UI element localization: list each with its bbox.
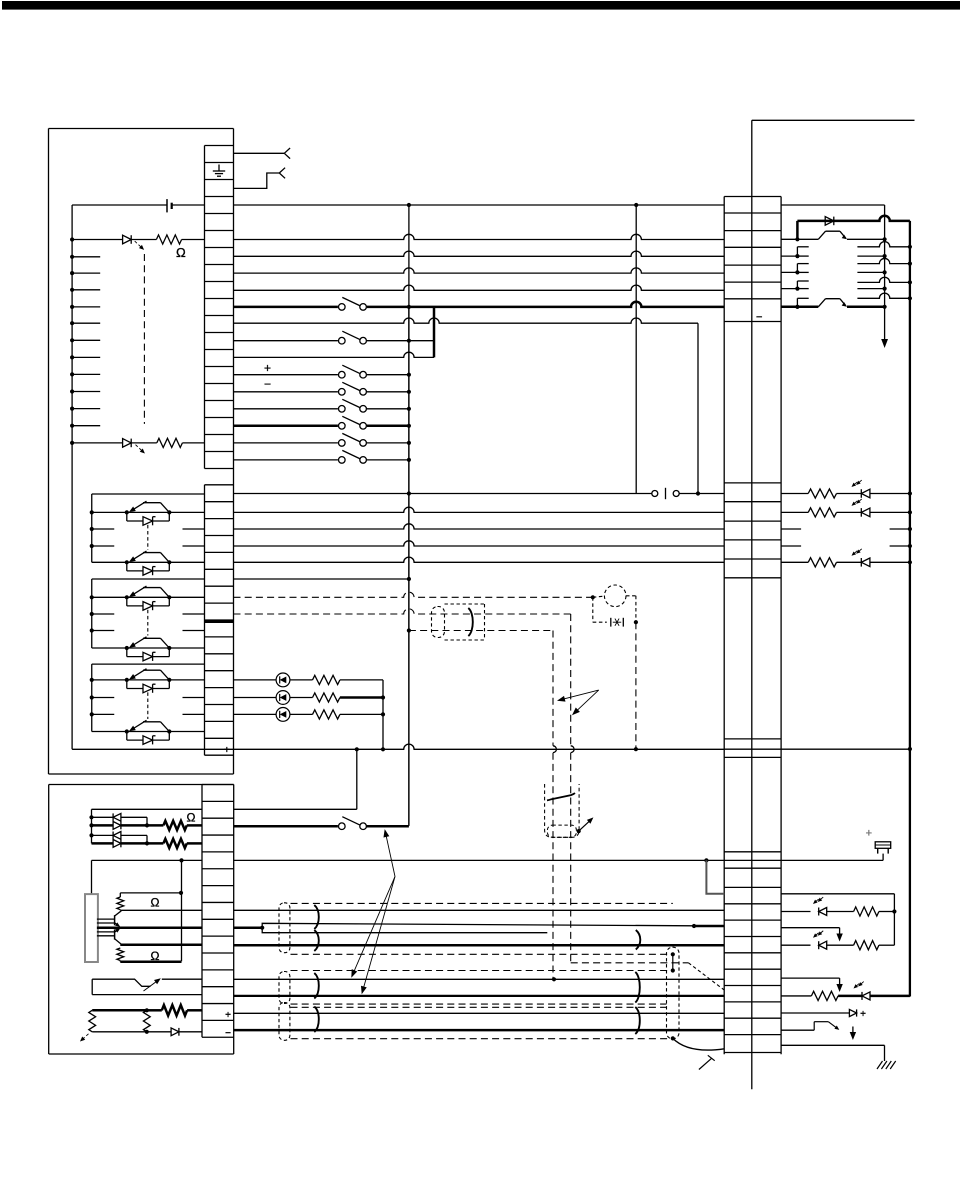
svg-text:+: +	[225, 1010, 231, 1021]
svg-text:−: −	[756, 311, 762, 323]
svg-text:−: −	[225, 1028, 231, 1039]
svg-text:+: +	[264, 361, 271, 375]
svg-text:+: +	[224, 745, 230, 756]
svg-text:Ω: Ω	[176, 245, 186, 260]
svg-text:Ω: Ω	[151, 949, 160, 963]
svg-text:−: −	[264, 377, 271, 391]
svg-text:Ω: Ω	[187, 811, 196, 825]
svg-text:Ω: Ω	[151, 896, 160, 910]
svg-text:+: +	[866, 828, 872, 840]
svg-text:+: +	[860, 1009, 866, 1020]
